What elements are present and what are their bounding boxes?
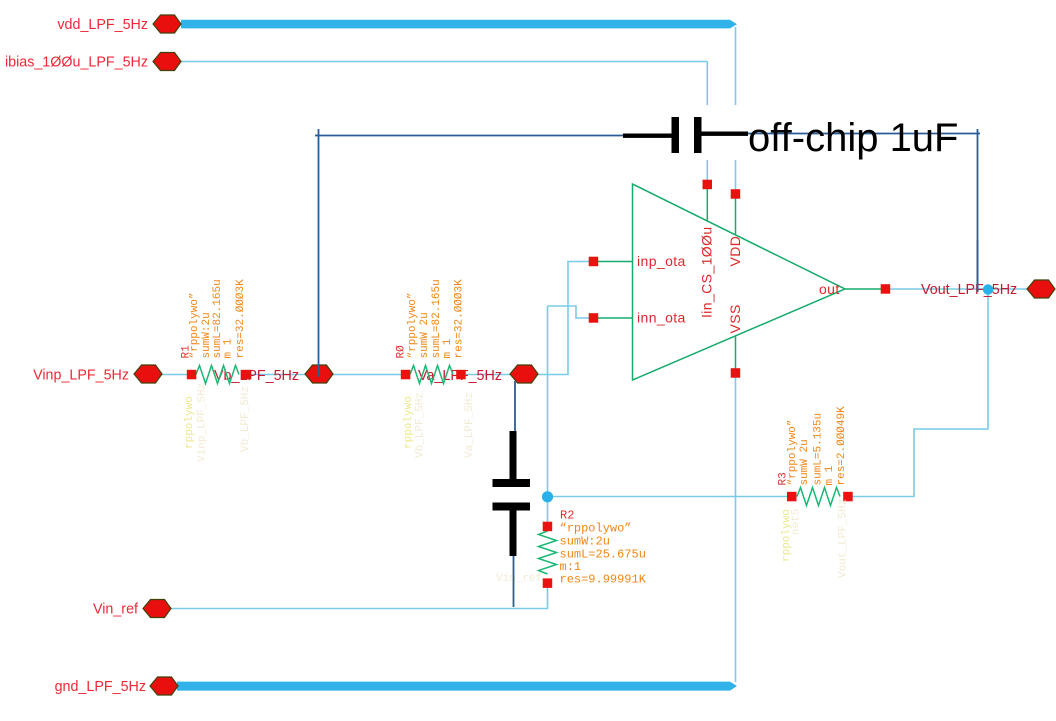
pin vdd_LPF_5Hz hexagon bbox=[153, 15, 181, 33]
svg-text:Va_LPF_5Hz: Va_LPF_5Hz bbox=[464, 392, 476, 458]
wire vdd rail (thick) bbox=[181, 20, 737, 29]
svg-text:inn_ota: inn_ota bbox=[637, 310, 686, 326]
wire (navy) Vout feedback vertical bbox=[977, 129, 979, 292]
svg-text:rppolywo: rppolywo bbox=[184, 396, 196, 449]
svg-text:Vin_ref: Vin_ref bbox=[93, 602, 138, 618]
svg-text:gnd_LPF_5Hz: gnd_LPF_5Hz bbox=[55, 679, 146, 695]
resistor R1 value labels bbox=[189, 279, 247, 359]
resistor R1 faint net labels bbox=[197, 383, 253, 462]
svg-text:Vb_LPF_5Hz: Vb_LPF_5Hz bbox=[415, 392, 427, 458]
resistor R2 designator label bbox=[560, 509, 574, 523]
value label off-chip 1uF bbox=[748, 116, 959, 160]
node Vb_LPF_5Hz hexagon bbox=[305, 365, 333, 383]
op-amp pin label VDD (rotated) bbox=[727, 236, 743, 267]
svg-text:off-chip 1uF: off-chip 1uF bbox=[748, 116, 959, 160]
net label Vout_LPF_5Hz bbox=[921, 282, 1017, 298]
op-amp pin stub out bbox=[845, 288, 886, 290]
op-amp pin stub Iin_CS_100u bbox=[706, 185, 708, 222]
svg-text:Vout_LPF_5Hz: Vout_LPF_5Hz bbox=[838, 499, 850, 578]
op-amp pin square VSS bbox=[731, 368, 741, 378]
pin Vin_ref hexagon bbox=[143, 600, 171, 618]
svg-text:sumW:2u: sumW:2u bbox=[201, 312, 213, 358]
svg-text:VSS: VSS bbox=[727, 304, 743, 333]
svg-text:rppolywo: rppolywo bbox=[403, 396, 415, 449]
resistor R0 designator label bbox=[396, 345, 408, 359]
resistor R2 faint net label Vin_ref bbox=[496, 573, 542, 585]
net label Vinp_LPF_5Hz bbox=[33, 368, 129, 384]
op-amp pin label inp_ota bbox=[637, 253, 686, 269]
resistor R0 pin square right bbox=[456, 370, 466, 380]
svg-text:sumW 2u: sumW 2u bbox=[799, 439, 811, 485]
wire gnd rail (thick) bbox=[177, 682, 737, 691]
wire inn_ota route bbox=[548, 306, 595, 318]
svg-text:VDD: VDD bbox=[727, 236, 743, 267]
wire (navy) off-chip cap to Vout horizontal bbox=[748, 133, 980, 135]
svg-text:inp_ota: inp_ota bbox=[637, 253, 686, 269]
svg-text:“rppolywo”: “rppolywo” bbox=[787, 419, 799, 485]
svg-text:sumW 2u: sumW 2u bbox=[419, 312, 431, 358]
op-amp pin label VSS (rotated) bbox=[727, 304, 743, 333]
wire out pin to Vout hexagon bbox=[886, 288, 1028, 290]
resistor R0 faint model label bbox=[403, 396, 415, 449]
wire (navy) feedback horizontal to off-chip cap bbox=[315, 135, 624, 137]
node label Va_LPF_5Hz bbox=[418, 368, 502, 384]
svg-text:m 1: m 1 bbox=[223, 338, 235, 358]
pin Vinp_LPF_5Hz hexagon bbox=[134, 365, 162, 383]
op-amp pin square VDD bbox=[731, 189, 741, 199]
resistor R0 zigzag bbox=[410, 366, 453, 384]
svg-text:Vinp_LPF_5Hz: Vinp_LPF_5Hz bbox=[197, 383, 209, 462]
svg-text:sumL=82.165u: sumL=82.165u bbox=[431, 279, 443, 358]
op-amp pin stub inn_ota bbox=[594, 317, 633, 319]
net label gnd_LPF_5Hz bbox=[55, 679, 146, 695]
svg-text:Vout_LPF_5Hz: Vout_LPF_5Hz bbox=[921, 282, 1017, 298]
resistor R1 pin square left bbox=[187, 370, 197, 380]
wire R2 bottom to Vin_ref net bbox=[167, 582, 548, 609]
svg-text:“rppolywo”: “rppolywo” bbox=[189, 292, 201, 358]
op-amp pin stub inp_ota bbox=[594, 261, 633, 263]
resistor R1 zigzag bbox=[196, 366, 239, 384]
op-amp pin label out bbox=[819, 281, 840, 297]
svg-text:vdd_LPF_5Hz: vdd_LPF_5Hz bbox=[57, 17, 148, 33]
capacitor C_offchip symbol bbox=[623, 117, 748, 153]
svg-text:Vinp_LPF_5Hz: Vinp_LPF_5Hz bbox=[33, 368, 129, 384]
resistor R1 faint model label bbox=[184, 396, 196, 449]
svg-text:res=2.ØØØ49K: res=2.ØØØ49K bbox=[836, 406, 848, 486]
resistor R1 pin square right bbox=[242, 370, 252, 380]
pin Vout_LPF_5Hz hexagon bbox=[1027, 280, 1055, 298]
resistor R3 zigzag bbox=[797, 488, 840, 506]
svg-text:res=32.ØØØ3K: res=32.ØØØ3K bbox=[453, 279, 465, 359]
svg-text:out: out bbox=[819, 281, 840, 297]
op-amp pin square out bbox=[881, 284, 891, 294]
svg-text:res=32.ØØØ3K: res=32.ØØØ3K bbox=[235, 279, 247, 359]
node label Vb_LPF_5Hz bbox=[214, 368, 299, 384]
wire vdd drop to VDD pin bbox=[735, 27, 737, 194]
wire (navy) overlay tip at Vout bbox=[977, 240, 979, 292]
net label vdd_LPF_5Hz bbox=[57, 17, 148, 33]
wire ibias rail bbox=[181, 61, 708, 63]
pin ibias_100u_LPF_5Hz hexagon bbox=[153, 53, 181, 71]
svg-text:“rppolywo”: “rppolywo” bbox=[560, 522, 632, 536]
op-amp pin stub VSS bbox=[735, 336, 737, 373]
resistor R3 pin square right bbox=[843, 492, 853, 502]
op-amp pin stub VDD bbox=[735, 194, 737, 236]
svg-text:Vin_ref: Vin_ref bbox=[496, 573, 542, 585]
wire R0 to node Va bbox=[461, 374, 511, 376]
svg-text:sumW:2u: sumW:2u bbox=[560, 535, 610, 549]
svg-text:res=9.99991K: res=9.99991K bbox=[560, 573, 647, 587]
op-amp pin square inp_ota bbox=[589, 257, 599, 267]
resistor R0 pin square left bbox=[401, 370, 411, 380]
resistor R3 faint model label bbox=[781, 509, 793, 562]
resistor R2 value labels bbox=[560, 522, 647, 587]
resistor R2 pin square top bbox=[543, 522, 553, 532]
wire R1 to node Vb bbox=[247, 374, 306, 376]
resistor R3 designator label bbox=[778, 472, 790, 485]
capacitor C1 symbol (vertical) bbox=[493, 431, 531, 556]
op-amp pin square Iin_CS_100u bbox=[703, 180, 713, 190]
svg-text:“rppolywo”: “rppolywo” bbox=[407, 292, 419, 358]
resistor R2 pin square bottom bbox=[543, 578, 553, 588]
net label ibias_100u_LPF_5Hz bbox=[5, 55, 148, 71]
svg-text:m 1: m 1 bbox=[824, 465, 836, 485]
op-amp pin square inn_ota bbox=[589, 313, 599, 323]
wire node Vb to R0 bbox=[331, 374, 405, 376]
net label Vin_ref bbox=[93, 602, 138, 618]
wire (navy) node Va down to capacitor C1 bbox=[514, 381, 516, 433]
annotation white backdrop for off-chip capacitor bbox=[619, 105, 960, 160]
resistor R3 faint net labels bbox=[791, 499, 850, 578]
svg-text:Iin_CS_1ØØu: Iin_CS_1ØØu bbox=[699, 226, 715, 318]
svg-text:ibias_1ØØu_LPF_5Hz: ibias_1ØØu_LPF_5Hz bbox=[5, 55, 148, 71]
op-amp pin label inn_ota bbox=[637, 310, 686, 326]
wire (navy) capacitor C1 down to Vin_ref net bbox=[513, 556, 515, 607]
op-amp U1 triangle bbox=[633, 184, 846, 380]
resistor R3 value labels bbox=[787, 406, 848, 486]
svg-text:net5: net5 bbox=[791, 509, 803, 535]
junction dot node net5 bbox=[542, 491, 553, 502]
resistor R0 faint net labels bbox=[415, 392, 477, 458]
wire junction to R3 left bbox=[548, 496, 793, 498]
resistor R0 value labels bbox=[407, 279, 465, 359]
resistor R1 designator label bbox=[181, 345, 193, 359]
svg-text:Vb_LPF_5Hz: Vb_LPF_5Hz bbox=[240, 386, 252, 452]
svg-text:sumL=5.135u: sumL=5.135u bbox=[813, 413, 825, 486]
op-amp pin label Iin_CS_100u (rotated) bbox=[699, 226, 715, 318]
wire VSS drop to gnd rail bbox=[735, 373, 737, 682]
node Va_LPF_5Hz hexagon bbox=[510, 365, 538, 383]
wire ibias drop to Iin_CS pin bbox=[706, 62, 708, 185]
wire vertical inn net down to junction and R2 top bbox=[547, 306, 549, 527]
junction dot Vout bbox=[983, 284, 993, 294]
svg-text:RØ: RØ bbox=[396, 345, 408, 359]
wire node Va to inp_ota bbox=[536, 262, 594, 375]
wire R3 right to Vout feedback bbox=[848, 290, 988, 497]
wire (navy) node Vb up-left feedback vertical bbox=[318, 129, 320, 377]
svg-text:R2: R2 bbox=[560, 509, 574, 523]
wire Vinp to R1 bbox=[160, 374, 192, 376]
resistor R3 pin square left bbox=[787, 492, 797, 502]
pin gnd_LPF_5Hz hexagon bbox=[150, 677, 178, 695]
resistor R2 zigzag (vertical) bbox=[539, 531, 557, 574]
